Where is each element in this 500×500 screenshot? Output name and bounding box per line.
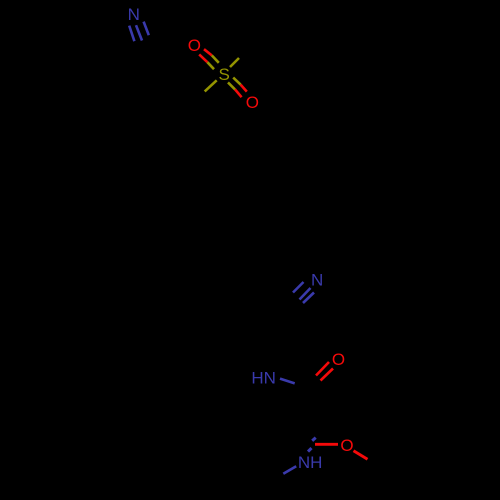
svg-text:N: N (311, 271, 323, 290)
svg-text:O: O (246, 93, 259, 112)
svg-text:NH: NH (298, 453, 323, 472)
svg-text:HN: HN (251, 369, 276, 388)
svg-text:N: N (128, 5, 140, 24)
svg-text:O: O (340, 436, 353, 455)
svg-text:S: S (219, 65, 230, 84)
svg-text:O: O (188, 36, 201, 55)
svg-text:O: O (332, 350, 345, 369)
